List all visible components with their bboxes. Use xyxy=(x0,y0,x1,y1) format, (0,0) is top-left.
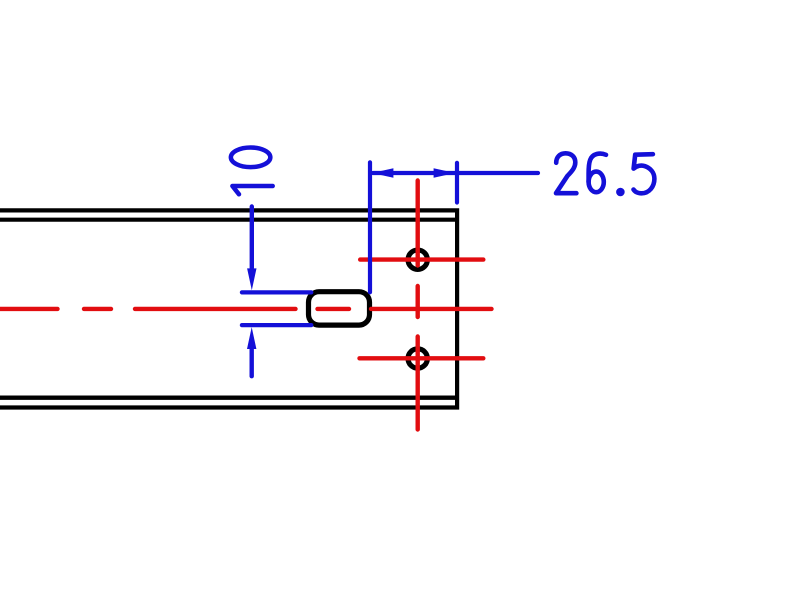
blue lower dimension arrow line (pointing up) xyxy=(249,350,253,377)
red main horizontal centerline (dashed long-short pattern) xyxy=(0,307,492,311)
dimension text 26.5 xyxy=(556,153,654,196)
hole circle 2 (lower) xyxy=(408,349,427,368)
blue upper arrowhead xyxy=(247,268,256,290)
part inner top edge line xyxy=(0,218,455,222)
blue lower extension line of dimension 10 (slot bottom edge) xyxy=(242,323,311,327)
digit 0 of "10" xyxy=(231,147,271,167)
red horizontal centerline through hole 1 xyxy=(360,257,483,261)
blue right arrowhead of 26.5 xyxy=(434,168,456,177)
blue upper extension line of dimension 10 (slot top edge) xyxy=(242,290,311,294)
digit 5 xyxy=(634,154,655,193)
part outline: outer contour of rail (top edge, right end, bottom edge) xyxy=(0,210,457,407)
blue lower arrowhead xyxy=(247,327,256,349)
digit 6 xyxy=(589,154,606,182)
blue dimension line with leader to text xyxy=(373,171,538,175)
part inner bottom edge line xyxy=(0,396,455,400)
slot (rounded rectangle cutout) xyxy=(309,292,370,325)
decimal point xyxy=(616,188,625,197)
red vertical centerline through both holes xyxy=(416,181,420,430)
blue left extension line of dimension 26.5 (slot right edge) xyxy=(368,162,372,292)
hole circle 1 (upper) xyxy=(408,250,427,269)
blue left arrowhead of 26.5 xyxy=(372,168,394,177)
dimension text 10 (rotated 90 CCW) : digit 1 then digit 0 reading upward xyxy=(231,147,273,194)
digit 1 of "10" xyxy=(232,186,272,194)
blue upper dimension arrow line (pointing down) xyxy=(250,207,254,269)
digit 2 xyxy=(556,153,576,193)
blue right extension line of dimension 26.5 (part right edge) xyxy=(455,163,459,203)
red horizontal centerline through hole 2 xyxy=(360,356,484,360)
